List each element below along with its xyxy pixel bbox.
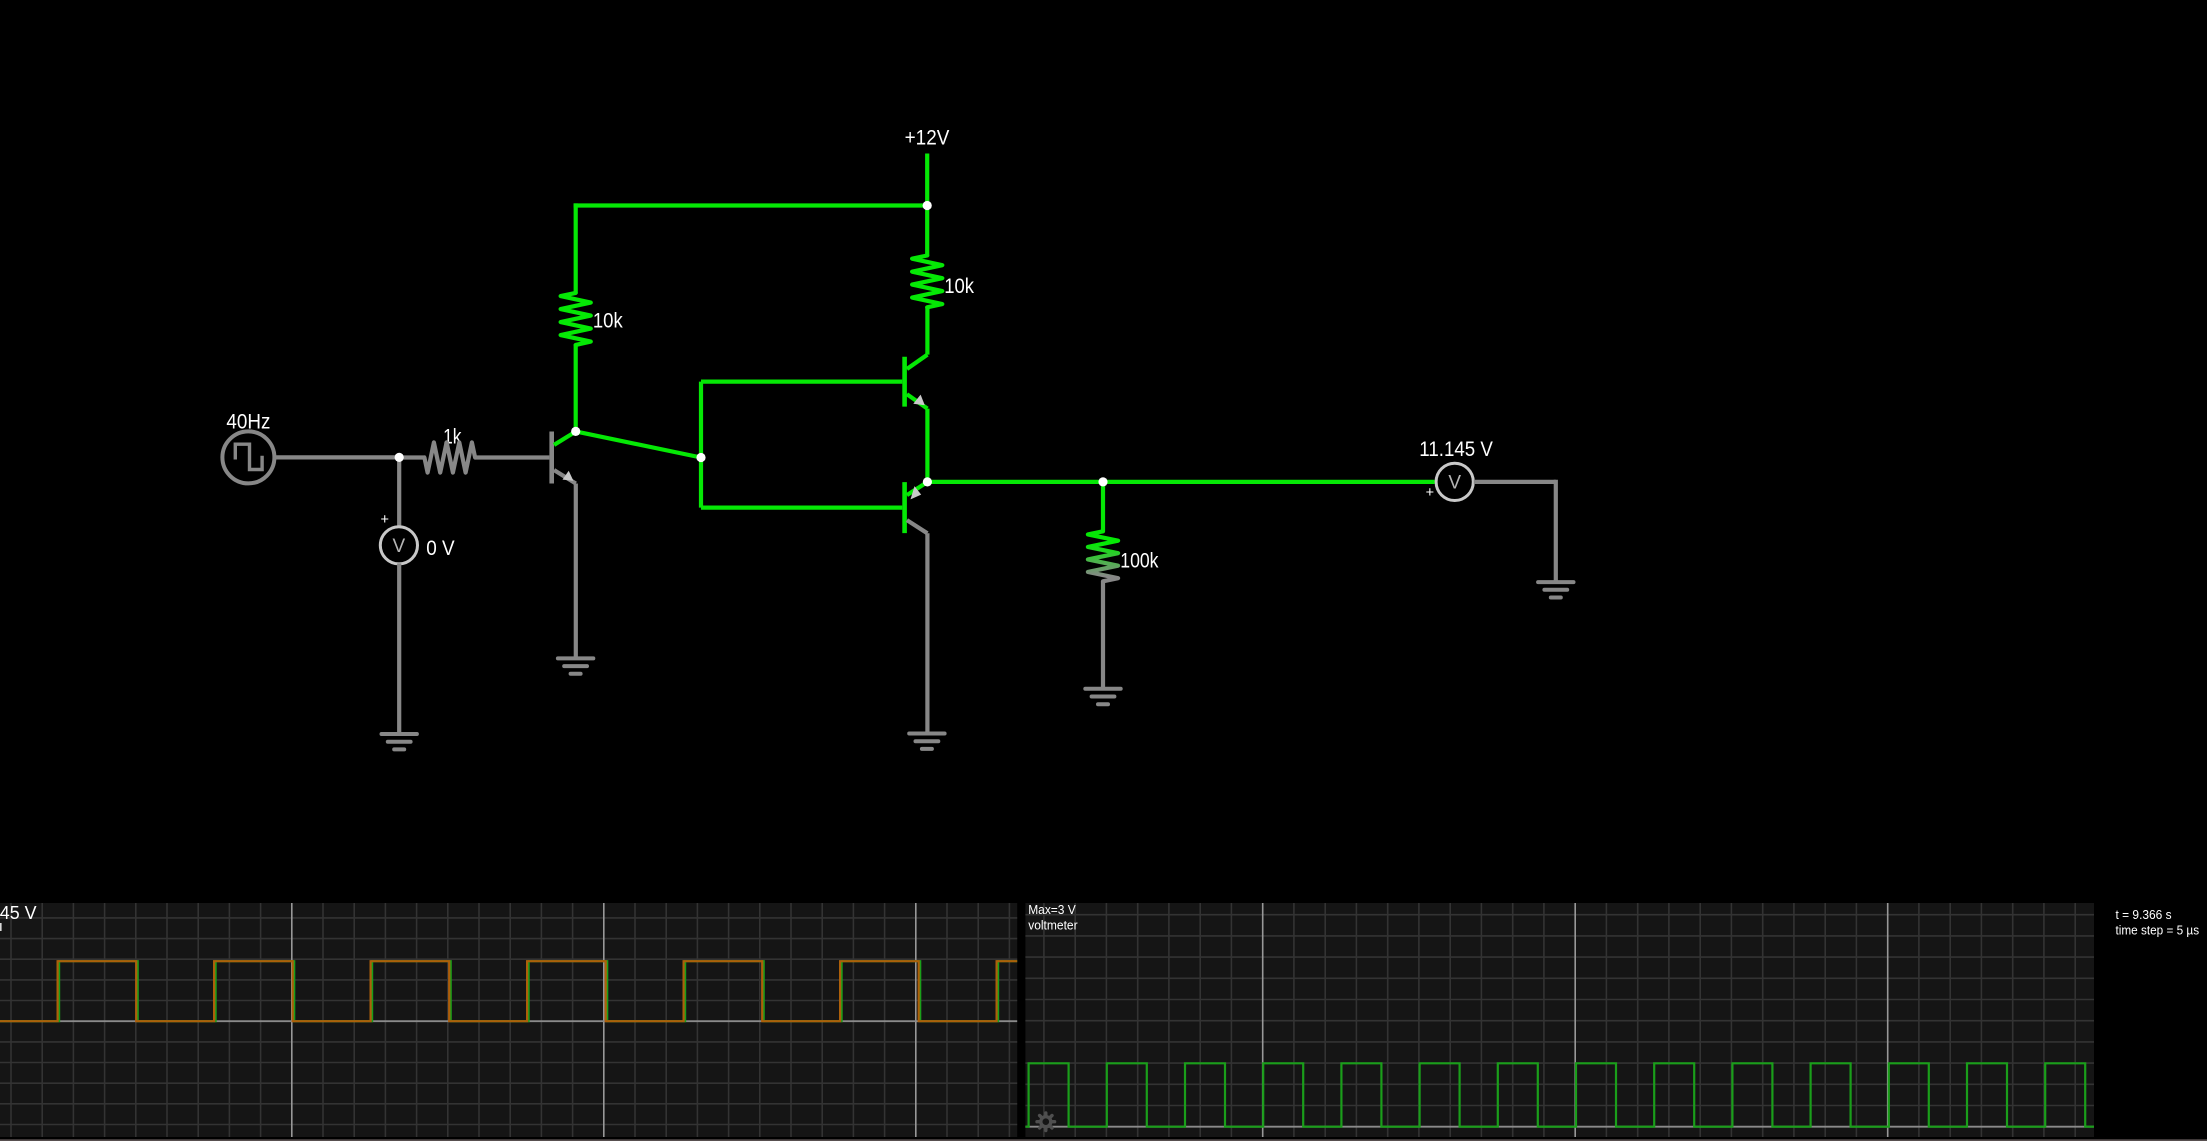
svg-text:100k: 100k	[1120, 549, 1159, 572]
svg-text:time step = 5 µs: time step = 5 µs	[2116, 924, 2200, 938]
transistor Q1 emitter lead	[554, 470, 576, 483]
resistor R1 1k	[399, 442, 549, 472]
ground G3	[909, 734, 944, 749]
node B dot	[696, 453, 705, 462]
svg-text:10k: 10k	[593, 310, 623, 333]
node R4 dot	[1098, 477, 1107, 486]
svg-text:+12V: +12V	[905, 127, 950, 150]
wire node B to Q3 base	[701, 506, 902, 510]
ground G5	[1538, 582, 1573, 597]
svg-text:11.145 V: 11.145 V	[1419, 438, 1493, 461]
svg-text:11.145 V: 11.145 V	[0, 902, 37, 923]
wire Q1 collector to node B	[576, 431, 701, 457]
transistor Q3 emitter lead	[907, 482, 928, 495]
svg-text:+: +	[1426, 485, 1434, 501]
wire R2 to top rail	[574, 203, 578, 293]
transistor Q1 collector lead	[554, 432, 576, 445]
wire voltmeter to corner	[1474, 480, 1556, 484]
scope 2 green trace	[1025, 1063, 2094, 1126]
scope 1 zero-volt axis	[0, 1020, 1017, 1022]
transistor Q3 base bar	[902, 482, 907, 533]
voltmeter VM2	[1426, 463, 1474, 501]
svg-text:0 V: 0 V	[426, 537, 454, 560]
svg-text:V: V	[1448, 473, 1461, 494]
scope 2 zero-volt axis	[1025, 1126, 2094, 1128]
transistor Q2 emitter lead	[907, 394, 928, 408]
wire R3 to Q2 collector	[925, 307, 929, 355]
node A dot	[395, 453, 404, 462]
wire Q1 emitter to ground	[574, 484, 578, 659]
transistor Q2 emitter arrow	[913, 395, 925, 406]
bottom window edge strip	[0, 1139, 2207, 1141]
oscilloscope panel 2 (voltmeter, Max=3 V) background	[1025, 903, 2094, 1137]
square-wave source VS1	[222, 431, 274, 483]
wire corner down	[1554, 480, 1558, 582]
scope 1 green trace	[0, 961, 1017, 1021]
scope settings gear icon	[1039, 1115, 1052, 1128]
wire Q1 collector up	[574, 344, 578, 429]
svg-text:t = 9.366 s: t = 9.366 s	[2116, 908, 2172, 922]
node OUT dot	[923, 477, 932, 486]
wire +12V stub	[925, 154, 929, 206]
wire Q2 emitter to output node	[925, 409, 929, 482]
wire source to node A	[274, 455, 399, 459]
svg-text:V: V	[393, 536, 406, 557]
resistor R2 10k	[561, 293, 591, 345]
voltmeter VM1 lead bottom	[397, 563, 401, 734]
svg-text:Max=3 V: Max=3 V	[1028, 903, 1076, 917]
transistor Q3 collector lead	[907, 520, 928, 533]
ground G2	[382, 734, 417, 749]
scope 1 orange trace	[0, 961, 1017, 1021]
wire output node to voltmeter	[927, 480, 1434, 484]
oscilloscope panel 1 (output voltmeter, Max=11.145 V) background	[0, 903, 1017, 1137]
wire node B vertical	[699, 382, 703, 508]
voltmeter VM1	[380, 512, 417, 564]
transistor Q2 collector lead	[907, 355, 928, 369]
svg-text:+: +	[380, 512, 388, 528]
transistor Q1 base bar	[549, 432, 554, 484]
scope 1 second label fragment	[0, 923, 2, 931]
wire Q3 collector to ground	[925, 533, 929, 733]
wire rail to R3	[925, 206, 929, 257]
svg-text:voltmeter: voltmeter	[1028, 918, 1077, 932]
svg-text:10k: 10k	[944, 275, 974, 298]
node rail dot	[923, 201, 932, 210]
transistor Q3 emitter arrow	[911, 486, 922, 499]
ground G1	[558, 658, 593, 673]
wire output to R4	[1101, 482, 1105, 531]
transistor Q1 emitter arrow	[563, 471, 574, 481]
node Q1C dot	[571, 427, 580, 436]
wire node B to Q2 base	[701, 380, 902, 384]
wire top rail	[574, 203, 928, 207]
ground G4	[1085, 689, 1120, 704]
wire R4 to ground	[1101, 581, 1105, 689]
transistor Q2 base bar	[902, 357, 907, 407]
voltmeter VM1 lead top	[397, 457, 401, 527]
resistor R3 10k	[912, 256, 942, 308]
